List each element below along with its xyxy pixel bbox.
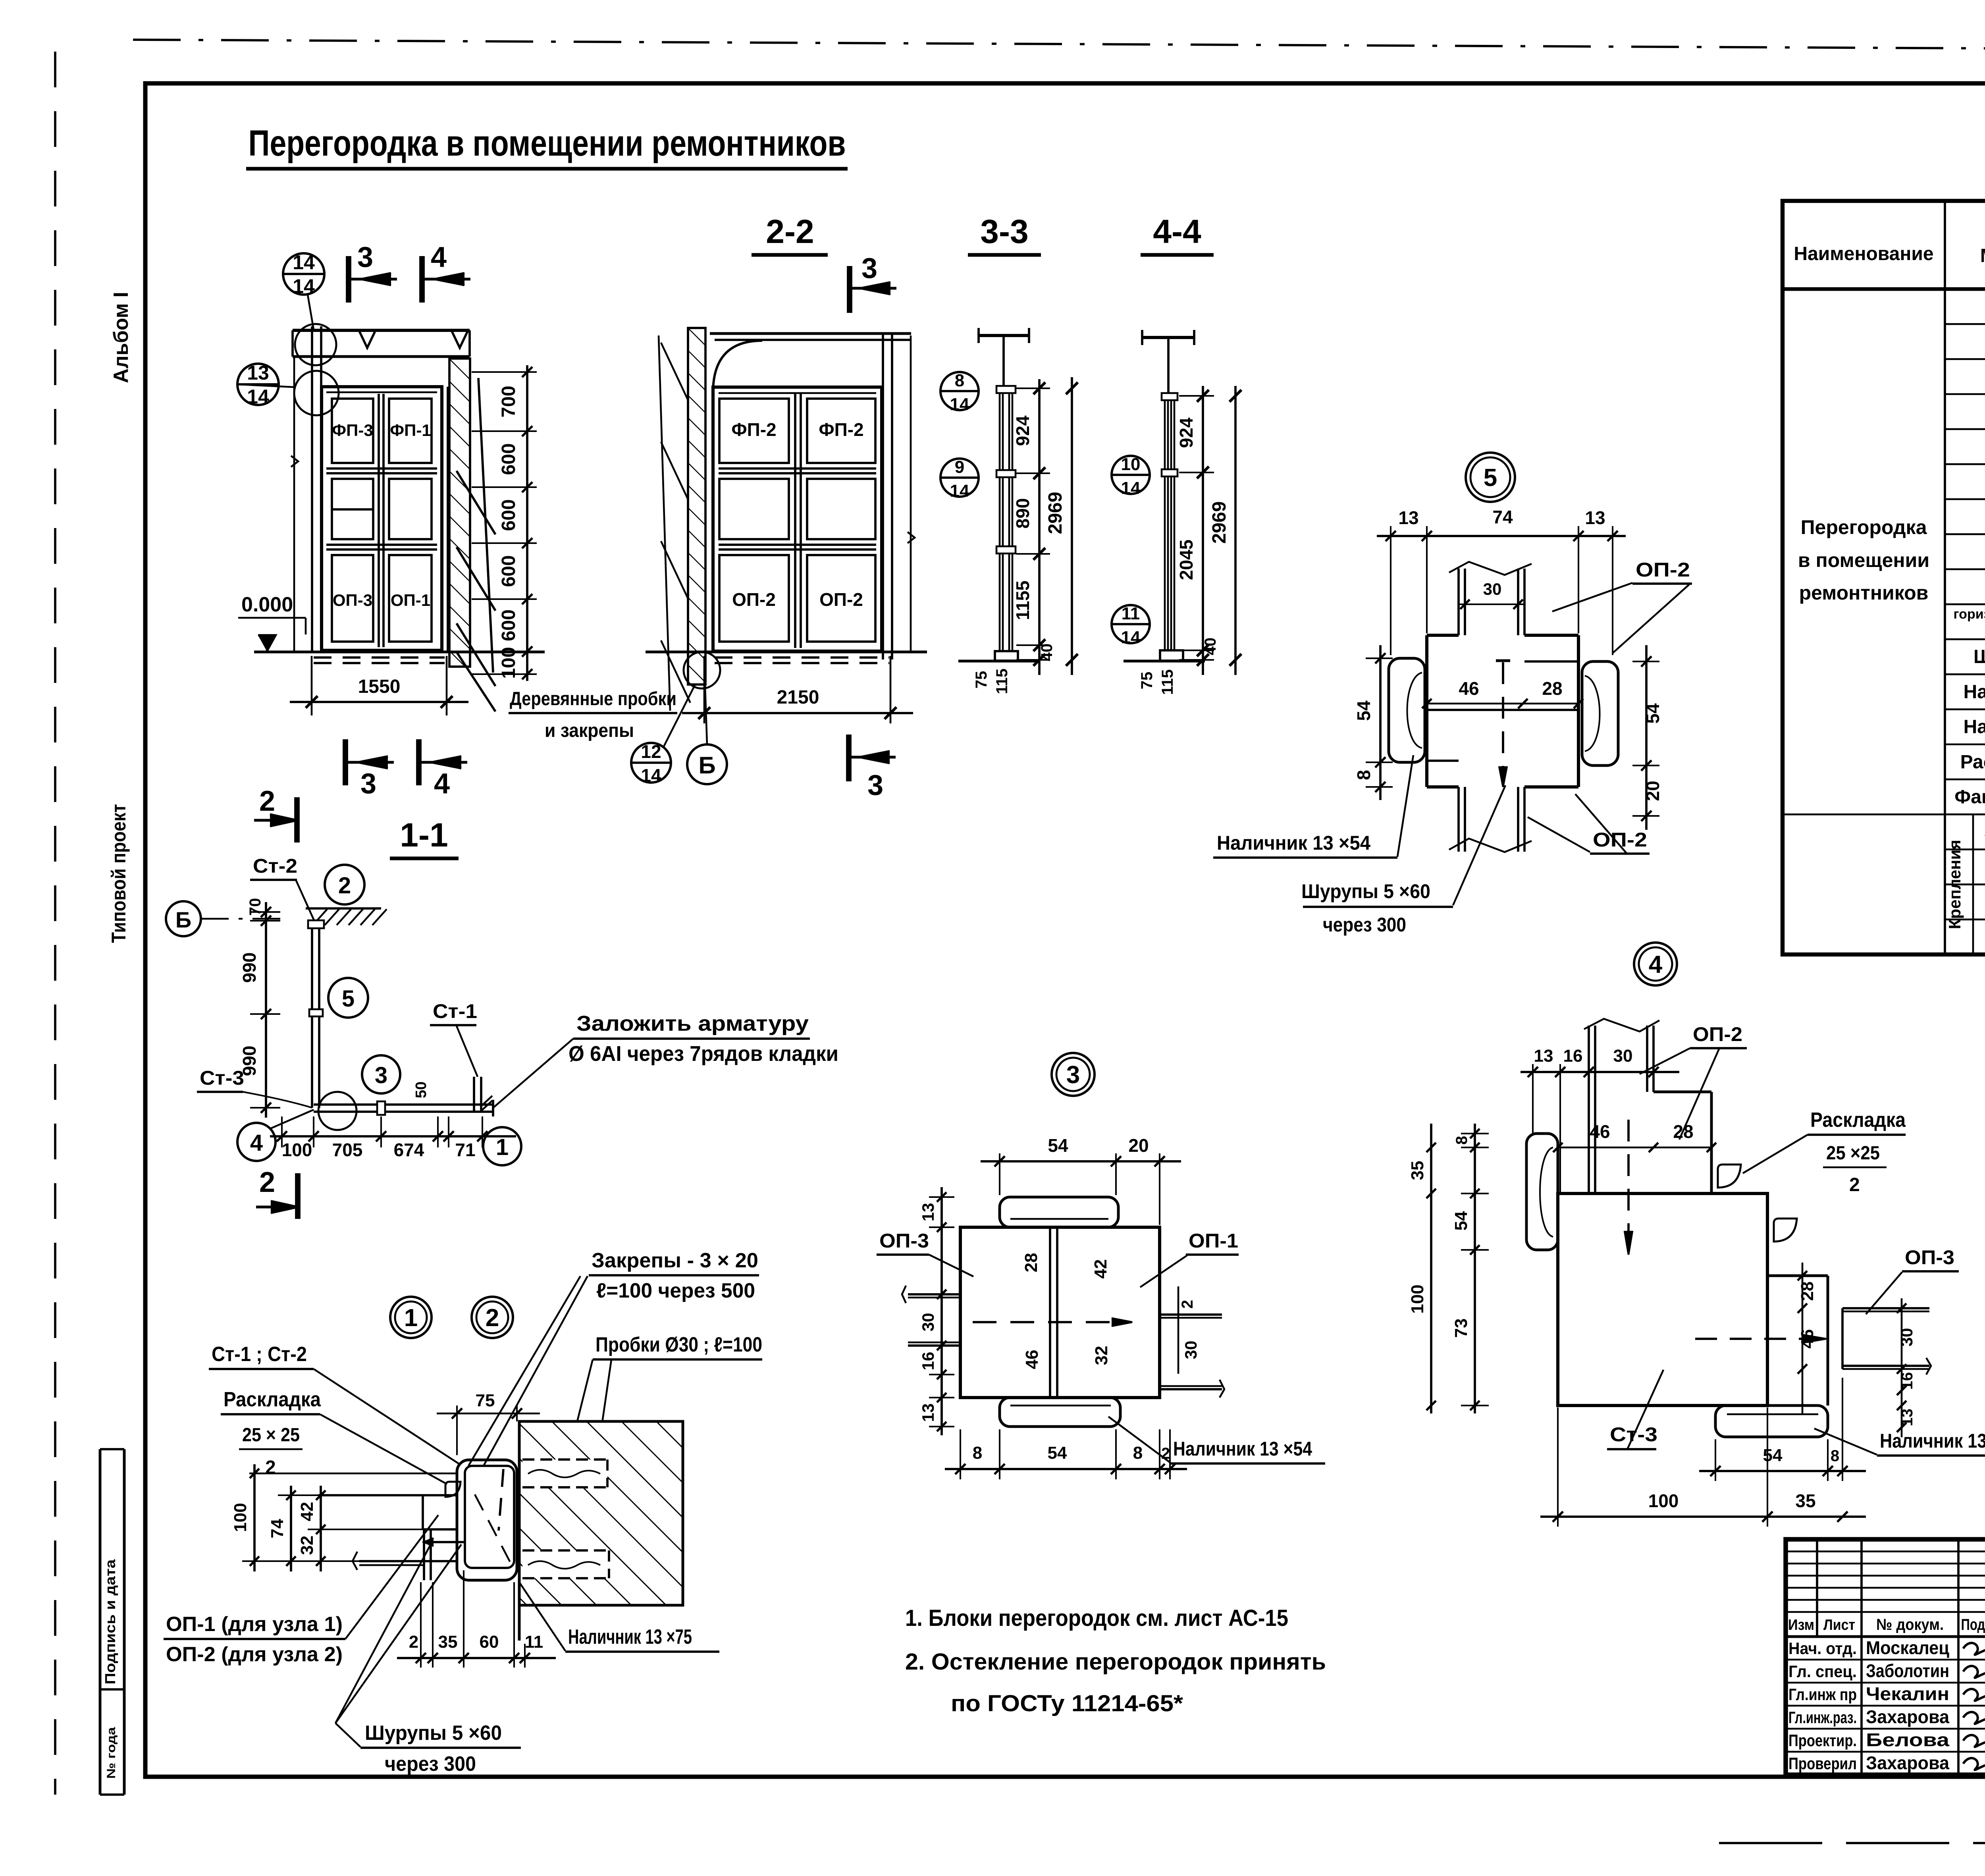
4-4 floor line bbox=[1124, 660, 1205, 663]
detail3 left dim chain bbox=[940, 1187, 943, 1435]
vertical dimension chain bbox=[526, 365, 528, 681]
svg-text:ОП-2: ОП-2 bbox=[1593, 829, 1647, 851]
detail4 bottom dims 54-8 100-35 bbox=[1699, 1470, 1866, 1472]
pane OP-3 bbox=[332, 555, 373, 642]
svg-text:Белова: Белова bbox=[1866, 1729, 1950, 1750]
masonry wall block hatched bbox=[519, 1421, 683, 1605]
svg-text:Деревянные пробки: Деревянные пробки bbox=[510, 688, 676, 710]
svg-text:Альбом I: Альбом I bbox=[110, 292, 133, 383]
svg-text:Подпись: Подпись bbox=[1961, 1616, 1985, 1633]
svg-text:20: 20 bbox=[1642, 781, 1663, 801]
svg-text:115: 115 bbox=[1159, 669, 1176, 695]
svg-text:№ докум.: № докум. bbox=[1876, 1616, 1944, 1633]
svg-text:12: 12 bbox=[641, 741, 661, 762]
detail5 top dim 13-74-13 bbox=[1377, 535, 1626, 537]
corner node circle (plan) bbox=[318, 1092, 357, 1130]
svg-text:Гл.инж пр: Гл.инж пр bbox=[1788, 1685, 1857, 1704]
svg-text:через 300: через 300 bbox=[385, 1753, 476, 1776]
panel frame 2-2 bbox=[713, 387, 882, 651]
title block outer bbox=[1786, 1539, 1985, 1775]
detail3 right dims 2 30 bbox=[1178, 1286, 1179, 1374]
svg-text:46: 46 bbox=[1798, 1329, 1817, 1349]
svg-text:600: 600 bbox=[498, 555, 519, 587]
svg-text:Наличник: Наличник bbox=[1964, 717, 1985, 738]
axis B dash-dot and circle bbox=[166, 901, 201, 936]
svg-text:14: 14 bbox=[950, 395, 969, 414]
detail4 right mid block bbox=[1767, 1274, 1828, 1277]
svg-text:2: 2 bbox=[486, 1304, 499, 1332]
svg-text:28: 28 bbox=[1542, 678, 1562, 699]
svg-text:46: 46 bbox=[1459, 678, 1479, 699]
stud St-1 end (plan) bbox=[473, 1077, 475, 1112]
svg-text:2: 2 bbox=[1849, 1174, 1860, 1195]
svg-text:ОП-2: ОП-2 bbox=[1636, 559, 1690, 581]
node circle at base bbox=[684, 652, 720, 688]
svg-text:54: 54 bbox=[1048, 1135, 1068, 1156]
svg-text:13: 13 bbox=[1398, 507, 1418, 528]
section marks 3 and 4 bottom bbox=[343, 739, 348, 785]
svg-text:10: 10 bbox=[1121, 455, 1141, 474]
svg-text:4: 4 bbox=[1649, 951, 1663, 978]
svg-text:через 300: через 300 bbox=[1323, 914, 1406, 936]
svg-text:9: 9 bbox=[955, 457, 964, 477]
svg-text:2: 2 bbox=[338, 873, 351, 898]
svg-text:14: 14 bbox=[247, 386, 269, 408]
svg-text:2969: 2969 bbox=[1209, 501, 1230, 544]
pane OP-2 left bbox=[719, 555, 789, 642]
svg-text:11: 11 bbox=[1122, 604, 1140, 623]
svg-text:Захарова: Захарова bbox=[1866, 1753, 1949, 1773]
svg-text:ОП-3: ОП-3 bbox=[1905, 1246, 1954, 1269]
svg-text:3-3: 3-3 bbox=[980, 213, 1028, 250]
svg-text:Закрепы - 3 × 20: Закрепы - 3 × 20 bbox=[592, 1249, 758, 1272]
svg-text:14: 14 bbox=[1121, 628, 1141, 647]
svg-text:990: 990 bbox=[239, 952, 260, 983]
pane OP-2 right bbox=[807, 555, 875, 642]
angle bracket and screw bbox=[423, 1529, 425, 1580]
svg-text:5: 5 bbox=[342, 986, 355, 1012]
horizontal run of partition (plan) bbox=[314, 1103, 493, 1106]
detail5 left casing bbox=[1389, 658, 1425, 762]
panel grid mullions bbox=[326, 391, 437, 393]
svg-text:2: 2 bbox=[259, 1166, 275, 1198]
detail 5 marker bbox=[1466, 453, 1515, 502]
node indicator circles bbox=[295, 324, 336, 365]
detail5 top panel strip bbox=[1457, 569, 1460, 635]
hatched wall pier bbox=[449, 359, 470, 667]
svg-text:Раскладка: Раскладка bbox=[224, 1388, 321, 1411]
svg-text:ОП-1 (для узла 1): ОП-1 (для узла 1) bbox=[166, 1613, 343, 1636]
pane middle right 2-2 bbox=[807, 479, 875, 539]
pane middle left bbox=[332, 479, 373, 539]
svg-text:ФП-2: ФП-2 bbox=[731, 419, 776, 440]
svg-text:Шурупы 5 ×60: Шурупы 5 ×60 bbox=[1301, 880, 1430, 902]
svg-text:13: 13 bbox=[247, 362, 269, 384]
svg-text:ОП-3: ОП-3 bbox=[333, 591, 372, 609]
svg-text:Заложить арматуру: Заложить арматуру bbox=[576, 1012, 809, 1035]
pane FP-3 bbox=[332, 399, 373, 463]
marker 9/14 bbox=[940, 459, 979, 497]
casing nalichnik 13x75 node bbox=[457, 1460, 517, 1580]
svg-text:ОП-2: ОП-2 bbox=[1693, 1023, 1742, 1045]
svg-text:ОП-1: ОП-1 bbox=[1189, 1230, 1238, 1252]
wall face line bbox=[518, 1421, 521, 1641]
floor line bbox=[254, 651, 545, 654]
svg-text:600: 600 bbox=[498, 499, 519, 531]
svg-text:600: 600 bbox=[498, 443, 519, 475]
svg-text:Проектир.: Проектир. bbox=[1788, 1731, 1857, 1750]
svg-text:№ года: № года bbox=[105, 1727, 118, 1779]
pane middle right bbox=[389, 479, 432, 539]
svg-text:2150: 2150 bbox=[777, 687, 819, 708]
detail3 bottom dim 8-54-8-2 bbox=[945, 1468, 1187, 1470]
svg-text:Ст-1 ; Ст-2: Ст-1 ; Ст-2 bbox=[212, 1343, 307, 1366]
svg-text:1-1: 1-1 bbox=[400, 816, 448, 854]
plan bottom dimension chain bbox=[270, 1135, 516, 1138]
svg-text:1: 1 bbox=[496, 1134, 509, 1160]
detail4 screw dashed vertical bbox=[1627, 1120, 1630, 1231]
svg-text:46: 46 bbox=[1590, 1121, 1610, 1142]
svg-text:8: 8 bbox=[1133, 1443, 1143, 1463]
left trim dashed line bbox=[54, 52, 56, 1795]
svg-text:1550: 1550 bbox=[358, 676, 401, 697]
3-3 base plate bbox=[995, 651, 1018, 661]
detail3 central square bbox=[960, 1227, 1160, 1398]
svg-text:3: 3 bbox=[867, 769, 883, 801]
4-4 overall 2969 bbox=[1234, 386, 1237, 675]
svg-text:14: 14 bbox=[293, 251, 315, 274]
sheet top dash-dot trim line bbox=[133, 40, 1985, 51]
pane FP-1 bbox=[389, 399, 432, 463]
svg-text:Наименование: Наименование bbox=[1794, 243, 1933, 264]
svg-text:ОП-2 (для узла 2): ОП-2 (для узла 2) bbox=[166, 1643, 343, 1666]
marker 10/14 bbox=[1112, 456, 1150, 494]
detail4 right dim chain 28-46 30-16-13 bbox=[1802, 1263, 1804, 1413]
svg-text:ОП-1: ОП-1 bbox=[391, 591, 430, 609]
dimension 2150 bbox=[703, 656, 705, 723]
svg-text:Наличник 13 ×54: Наличник 13 ×54 bbox=[1880, 1430, 1985, 1452]
svg-text:2: 2 bbox=[409, 1632, 418, 1652]
svg-text:Ст-3: Ст-3 bbox=[200, 1067, 244, 1089]
svg-text:Ст-2: Ст-2 bbox=[253, 855, 297, 877]
3-3 top tee symbol bbox=[979, 334, 1029, 337]
detail5 right casing bbox=[1582, 661, 1618, 765]
detail4 dims 46-28 upper bbox=[1558, 1147, 1711, 1149]
glazing bead node bbox=[445, 1482, 461, 1497]
svg-text:Заболотин: Заболотин bbox=[1866, 1660, 1949, 1681]
svg-text:100: 100 bbox=[282, 1139, 312, 1160]
svg-text:60: 60 bbox=[480, 1632, 499, 1652]
svg-text:Нач. отд.: Нач. отд. bbox=[1788, 1639, 1857, 1658]
svg-text:890: 890 bbox=[1012, 498, 1033, 529]
detail3 bottom casing bbox=[1000, 1398, 1120, 1427]
detail4 top panel strip OP-2 bbox=[1588, 1026, 1590, 1193]
left section verticals bbox=[1816, 1539, 1818, 1637]
top line of node 100 level bbox=[249, 1473, 457, 1475]
svg-text:Б: Б bbox=[698, 752, 715, 779]
svg-text:54: 54 bbox=[1048, 1443, 1067, 1463]
panel OP from left bbox=[318, 1494, 457, 1496]
svg-text:Штапик: Штапик bbox=[1973, 646, 1985, 667]
svg-text:Гл.инж.раз.: Гл.инж.раз. bbox=[1788, 1708, 1857, 1727]
detail3 right panel bbox=[1160, 1313, 1222, 1316]
svg-text:705: 705 bbox=[332, 1139, 363, 1160]
svg-text:ОП-2: ОП-2 bbox=[732, 589, 776, 610]
hatched wall strip 2-2 bbox=[688, 328, 705, 684]
svg-text:3: 3 bbox=[1066, 1061, 1080, 1089]
svg-text:Фанера δ=4: Фанера δ=4 bbox=[1954, 787, 1985, 808]
svg-text:32: 32 bbox=[1092, 1346, 1111, 1365]
signatures squiggles bbox=[1963, 1643, 1985, 1655]
left section small rows bbox=[1786, 1550, 1985, 1552]
stud St rounded rect node bbox=[465, 1466, 514, 1568]
4-4 top tee symbol bbox=[1142, 336, 1194, 339]
detail5 mid junction line bbox=[1427, 709, 1578, 711]
svg-text:74: 74 bbox=[268, 1519, 287, 1538]
svg-text:Шурупы 5 ×60: Шурупы 5 ×60 bbox=[365, 1722, 502, 1745]
right jamb bbox=[441, 387, 443, 652]
svg-text:54: 54 bbox=[1451, 1211, 1471, 1230]
svg-text:и закрепы: и закрепы bbox=[545, 720, 634, 741]
svg-text:8: 8 bbox=[1353, 770, 1374, 780]
anchor dashes below floor bbox=[314, 656, 445, 659]
svg-text:в помещении: в помещении bbox=[1798, 549, 1929, 571]
detail3 top dim 54-20 bbox=[981, 1160, 1181, 1163]
upper plug dashed bbox=[522, 1460, 607, 1487]
svg-text:54: 54 bbox=[1642, 703, 1663, 724]
svg-text:горизонтальный: горизонтальный bbox=[1953, 607, 1985, 622]
3-3 overall 2969 bbox=[1071, 377, 1073, 675]
wall outer slant line with hatch diagonals bbox=[659, 335, 670, 711]
svg-text:16: 16 bbox=[1563, 1046, 1583, 1066]
bottom dimension 1550 bbox=[311, 656, 313, 715]
svg-text:50: 50 bbox=[413, 1082, 430, 1098]
svg-text:600: 600 bbox=[498, 609, 519, 641]
svg-text:42: 42 bbox=[297, 1502, 317, 1521]
svg-text:35: 35 bbox=[1408, 1161, 1427, 1180]
svg-text:54: 54 bbox=[1763, 1446, 1783, 1465]
svg-text:2: 2 bbox=[265, 1457, 276, 1478]
svg-text:11: 11 bbox=[525, 1632, 543, 1652]
section mark 3 top right of 2-2 bbox=[847, 266, 852, 313]
header row izm list bbox=[1786, 1635, 1985, 1638]
svg-text:4: 4 bbox=[434, 768, 450, 800]
svg-text:ФП-2: ФП-2 bbox=[819, 419, 863, 440]
svg-text:54: 54 bbox=[1353, 700, 1374, 721]
svg-text:30: 30 bbox=[1613, 1046, 1633, 1066]
node top dim 75 bbox=[437, 1413, 540, 1415]
svg-text:8: 8 bbox=[973, 1443, 982, 1463]
svg-text:Лист: Лист bbox=[1823, 1617, 1855, 1633]
plan node circles bbox=[325, 865, 364, 904]
4-4 panel strip section bbox=[1164, 396, 1166, 659]
svg-text:ОП-2: ОП-2 bbox=[819, 589, 863, 610]
svg-text:Подпись и дата: Подпись и дата bbox=[102, 1559, 118, 1684]
pane FP-2 right bbox=[807, 399, 875, 463]
detail5 right dim chain bbox=[1645, 645, 1648, 830]
pane FP-2 left bbox=[719, 399, 789, 463]
svg-text:100: 100 bbox=[231, 1503, 250, 1532]
pane middle left 2-2 bbox=[719, 479, 789, 539]
svg-text:35: 35 bbox=[438, 1632, 458, 1652]
svg-text:75: 75 bbox=[973, 671, 990, 689]
svg-text:13: 13 bbox=[1585, 507, 1605, 528]
svg-text:13: 13 bbox=[1534, 1046, 1553, 1066]
detail 3 marker bbox=[1052, 1053, 1095, 1096]
svg-text:16: 16 bbox=[919, 1352, 937, 1371]
svg-text:70: 70 bbox=[247, 898, 264, 916]
svg-text:4: 4 bbox=[250, 1130, 263, 1156]
left stud Ct-2 bbox=[311, 326, 313, 651]
detail4 top dims 13-16-30 bbox=[1521, 1071, 1679, 1073]
detail3 center joint double line bbox=[1049, 1227, 1051, 1398]
stamp column lines bottom left bbox=[99, 1449, 102, 1795]
svg-text:924: 924 bbox=[1012, 415, 1033, 446]
svg-text:8: 8 bbox=[1453, 1136, 1470, 1145]
detail4 upper step block bbox=[1654, 1091, 1711, 1093]
svg-text:Раскладка: Раскладка bbox=[1960, 752, 1985, 773]
svg-text:40: 40 bbox=[1202, 638, 1219, 656]
detail 4 marker bbox=[1634, 943, 1677, 985]
detail4 bead quarter rounds bbox=[1718, 1165, 1741, 1188]
svg-text:3: 3 bbox=[360, 768, 376, 800]
svg-text:2: 2 bbox=[1179, 1300, 1196, 1309]
plan left dimension chain 70-990-990 bbox=[265, 902, 267, 1118]
svg-text:Наличник 13 ×75: Наличник 13 ×75 bbox=[568, 1625, 692, 1648]
svg-text:Проверил: Проверил bbox=[1788, 1754, 1857, 1773]
4-4 dimension chain bbox=[1202, 386, 1204, 675]
elevation view left partition bbox=[293, 329, 470, 332]
svg-text:Наличник: Наличник bbox=[1964, 681, 1985, 702]
detail5 mid dim 46-28 bbox=[1427, 703, 1578, 705]
svg-text:8: 8 bbox=[1831, 1447, 1839, 1465]
4-4 base plate bbox=[1160, 650, 1183, 661]
svg-text:по ГОСТу 11214-65*: по ГОСТу 11214-65* bbox=[951, 1691, 1183, 1716]
specification table bbox=[1783, 201, 1985, 954]
svg-text:Москалец: Москалец bbox=[1866, 1637, 1949, 1658]
svg-text:13: 13 bbox=[1898, 1409, 1916, 1427]
section mark 3 bottom of 2-2 bbox=[846, 735, 852, 781]
svg-text:3: 3 bbox=[375, 1062, 387, 1088]
svg-text:100: 100 bbox=[1408, 1284, 1427, 1313]
svg-text:14: 14 bbox=[1121, 478, 1141, 498]
svg-text:71: 71 bbox=[455, 1139, 475, 1160]
svg-text:28: 28 bbox=[1798, 1282, 1817, 1301]
node left dims 100 74 42 32 bbox=[253, 1464, 256, 1571]
node bottom dims 2 35 60 11 bbox=[397, 1657, 556, 1659]
detail5 left dim chain bbox=[1379, 645, 1382, 800]
3-3 floor line bbox=[958, 660, 1037, 663]
svg-text:Б: Б bbox=[175, 907, 191, 932]
axis marker B bbox=[687, 744, 727, 784]
svg-text:14: 14 bbox=[641, 765, 661, 786]
svg-text:674: 674 bbox=[394, 1139, 424, 1160]
svg-text:4: 4 bbox=[431, 241, 447, 273]
svg-text:4-4: 4-4 bbox=[1153, 213, 1201, 250]
section marks 3 and 4 top bbox=[346, 256, 351, 303]
svg-text:42: 42 bbox=[1091, 1259, 1110, 1279]
detail5 panel step edges bbox=[1524, 660, 1578, 663]
svg-text:ремонтников: ремонтников bbox=[1799, 582, 1929, 604]
svg-text:20: 20 bbox=[1128, 1135, 1149, 1156]
svg-text:1: 1 bbox=[404, 1304, 418, 1332]
svg-text:Наличник 13 ×54: Наличник 13 ×54 bbox=[1173, 1438, 1312, 1460]
right edge line 2-2 bbox=[910, 335, 912, 651]
right stud 2-2 bbox=[882, 334, 884, 659]
floor line 2-2 bbox=[646, 651, 927, 654]
svg-text:ОП-3: ОП-3 bbox=[879, 1230, 929, 1252]
svg-text:3: 3 bbox=[357, 241, 373, 273]
detail4 bottom casing right bbox=[1715, 1406, 1828, 1437]
svg-text:ℓ=100 через 500: ℓ=100 через 500 bbox=[596, 1279, 755, 1302]
marker 12/14 bbox=[631, 743, 671, 783]
detail5 central stud square bbox=[1427, 634, 1459, 637]
svg-text:100: 100 bbox=[1648, 1490, 1679, 1511]
detail4 central square St-3 bbox=[1558, 1193, 1767, 1406]
detail3 left panel bbox=[908, 1293, 960, 1296]
stud St-2 vertical (plan) bbox=[311, 921, 313, 1108]
3-3 dimension chain bbox=[1038, 379, 1041, 675]
svg-text:Раскладка: Раскладка bbox=[1810, 1109, 1906, 1132]
svg-text:3: 3 bbox=[861, 253, 877, 284]
svg-text:Марка: Марка bbox=[1980, 245, 1985, 266]
detail5 bottom panel strip bbox=[1457, 787, 1460, 852]
svg-text:30: 30 bbox=[919, 1313, 937, 1332]
svg-text:13: 13 bbox=[919, 1203, 937, 1222]
svg-text:16: 16 bbox=[1898, 1372, 1916, 1390]
svg-text:ФП-3: ФП-3 bbox=[332, 421, 373, 440]
svg-text:32: 32 bbox=[297, 1536, 317, 1555]
svg-text:Захарова: Захарова bbox=[1866, 1706, 1949, 1727]
detail5 screw dashed bbox=[1502, 662, 1504, 766]
svg-text:Наличник 13 ×54: Наличник 13 ×54 bbox=[1217, 832, 1370, 854]
svg-text:25 × 25: 25 × 25 bbox=[242, 1425, 300, 1446]
svg-text:30: 30 bbox=[1181, 1341, 1200, 1359]
svg-text:1155: 1155 bbox=[1012, 580, 1033, 620]
top cap 2-2 bbox=[710, 332, 911, 335]
svg-text:2: 2 bbox=[259, 785, 275, 817]
detail3 top casing bbox=[1000, 1197, 1118, 1227]
svg-text:Ст-1: Ст-1 bbox=[433, 1000, 477, 1022]
svg-text:25 ×25: 25 ×25 bbox=[1826, 1143, 1880, 1164]
detail4 right panel OP-3 bbox=[1842, 1307, 1929, 1309]
svg-text:75: 75 bbox=[1138, 672, 1156, 690]
detail markers 1 and 2 bbox=[390, 1297, 432, 1338]
svg-text:40: 40 bbox=[1038, 644, 1056, 661]
svg-text:30: 30 bbox=[1897, 1328, 1916, 1347]
marker 14/14 bbox=[283, 253, 324, 295]
svg-text:Гл. спец.: Гл. спец. bbox=[1788, 1662, 1857, 1681]
3-3 panel strip section bbox=[999, 389, 1001, 660]
pane OP-1 bbox=[389, 555, 432, 642]
detail4 left casing bbox=[1526, 1134, 1558, 1250]
left wall edge line bbox=[293, 357, 295, 652]
plug leader diagonals bbox=[457, 471, 495, 534]
svg-text:2969: 2969 bbox=[1045, 492, 1066, 534]
marker 11/14 bbox=[1112, 605, 1150, 643]
svg-text:28: 28 bbox=[1021, 1253, 1041, 1273]
svg-text:ФП-1: ФП-1 bbox=[390, 421, 431, 440]
detail4 screw dashed horizontal to right panel bbox=[1695, 1338, 1802, 1340]
svg-text:46: 46 bbox=[1022, 1350, 1042, 1369]
svg-text:924: 924 bbox=[1176, 417, 1197, 448]
svg-text:74: 74 bbox=[1492, 507, 1513, 527]
marker 13/14 bbox=[237, 364, 279, 405]
svg-text:2045: 2045 bbox=[1176, 540, 1197, 580]
svg-text:Типовой проект: Типовой проект bbox=[108, 804, 130, 943]
svg-text:2. Остекление перегородок: 2. Остекление перегородок принять bbox=[905, 1649, 1326, 1675]
svg-text:13: 13 bbox=[919, 1404, 937, 1422]
